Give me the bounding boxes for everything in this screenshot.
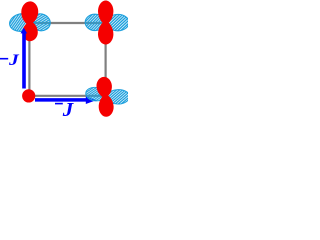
svg-text:J: J [62, 99, 74, 119]
svg-text:J: J [8, 51, 20, 69]
